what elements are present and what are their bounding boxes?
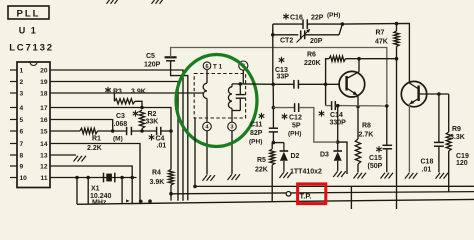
T1 secondary bottom link — [232, 110, 240, 112]
node T1 cap top — [239, 82, 243, 86]
resistor R8 — [357, 107, 359, 140]
pin 10 stub — [10, 177, 17, 179]
svg-text:7: 7 — [20, 141, 24, 148]
T1 internal capacitor — [239, 84, 241, 95]
ground D3 — [333, 171, 338, 177]
node top bus left — [193, 185, 197, 189]
node X1 right — [120, 176, 124, 180]
svg-text:R1: R1 — [92, 136, 101, 143]
node Q1 collector rail — [357, 57, 361, 61]
node X1 left outer — [75, 176, 79, 180]
transistor Q2 — [401, 81, 426, 106]
svg-text:22P: 22P — [311, 15, 324, 22]
node top rail junction — [341, 22, 345, 26]
ground R8 — [354, 173, 359, 179]
svg-text:120P: 120P — [144, 62, 161, 69]
svg-text:3: 3 — [20, 91, 24, 98]
pin 9 stub — [10, 165, 17, 167]
wire pin20 — [50, 70, 183, 201]
pin 6 stub — [10, 130, 17, 132]
svg-text:U 1: U 1 — [19, 26, 38, 36]
svg-text:R7: R7 — [376, 30, 385, 37]
svg-text:R5: R5 — [257, 157, 266, 164]
node R7 top — [395, 22, 399, 26]
wire R7 node down to bottom edge — [396, 59, 398, 209]
svg-text:5P: 5P — [292, 123, 301, 130]
svg-text:11: 11 — [41, 175, 48, 182]
node bus x150 — [148, 199, 152, 203]
node R4 bottom — [169, 192, 173, 196]
svg-text:(M): (M) — [113, 136, 123, 143]
capacitor C16 branch — [273, 23, 303, 25]
pin 3 stub — [10, 92, 17, 94]
svg-text:3.3K: 3.3K — [450, 134, 465, 141]
svg-text:8: 8 — [20, 153, 24, 160]
IC U1 body — [17, 62, 50, 188]
T1 pin 4 — [203, 122, 212, 131]
svg-text:C12: C12 — [289, 115, 302, 122]
svg-text:12: 12 — [40, 164, 48, 171]
transformer T1 shield box — [194, 74, 245, 119]
PLL block label box — [8, 6, 49, 19]
node C4/pin17 junction — [169, 129, 173, 133]
T1 pin 6 — [203, 62, 211, 70]
svg-text:T.P.: T.P. — [300, 191, 312, 200]
node C13/R6 junction — [324, 83, 328, 87]
capacitor C12 — [294, 103, 296, 112]
svg-text:C4: C4 — [156, 135, 165, 142]
svg-text:(50P: (50P — [368, 163, 383, 170]
svg-text:C5: C5 — [146, 53, 155, 60]
trimmer arrow CT2 — [297, 31, 309, 43]
wire secondary row to C13 junction — [243, 83, 273, 85]
svg-text:C11: C11 — [250, 122, 263, 129]
wire D3 node drop to ground — [338, 142, 347, 174]
svg-text:17: 17 — [40, 105, 48, 112]
wire pin14 — [50, 144, 140, 202]
diode D2 — [283, 143, 285, 151]
node C12 row junction — [272, 106, 276, 110]
resistor R5 — [271, 143, 273, 149]
svg-text:R8: R8 — [362, 123, 371, 130]
svg-text:20: 20 — [40, 68, 48, 75]
svg-text:MHz: MHz — [92, 200, 107, 207]
pin 4 stub — [10, 107, 17, 109]
svg-text:LC7132: LC7132 — [9, 43, 54, 54]
wire pin17 — [50, 108, 171, 132]
svg-text:2.7K: 2.7K — [359, 131, 374, 138]
svg-text:C18: C18 — [421, 159, 434, 166]
wire Q1 emitter down — [357, 95, 359, 106]
svg-text:.01: .01 — [422, 167, 432, 174]
svg-text:2.2K: 2.2K — [87, 145, 102, 152]
svg-text:2: 2 — [20, 79, 24, 86]
ground T1 pin3 — [228, 174, 233, 180]
svg-text:X1: X1 — [91, 186, 100, 193]
svg-text:5: 5 — [20, 117, 24, 124]
svg-text:120: 120 — [456, 160, 468, 167]
wire C5 bottom — [171, 61, 188, 201]
test point bus — [171, 192, 474, 194]
ground top-2 — [152, 0, 157, 4]
svg-text:4: 4 — [20, 105, 24, 112]
green highlight ellipse around T1 — [176, 55, 257, 147]
svg-text:47K: 47K — [375, 38, 388, 45]
svg-text:20P: 20P — [310, 38, 323, 45]
svg-text:3.9K: 3.9K — [131, 89, 146, 96]
T1 pin3 ground lead — [231, 131, 233, 174]
ground pin13 — [74, 156, 79, 162]
bottom bus — [77, 199, 474, 204]
node pin12 junction — [130, 176, 134, 180]
red highlight box around T.P. — [298, 184, 326, 204]
wire X1 drop 3 — [121, 178, 123, 204]
crystal X1 — [103, 173, 105, 183]
wire drop x351 to bottom — [350, 186, 352, 209]
wire pin12 drop — [131, 178, 133, 204]
svg-text:.01: .01 — [157, 143, 167, 150]
wire pin11 row — [50, 177, 137, 179]
wire C13 row — [273, 83, 294, 85]
svg-text:R9: R9 — [452, 126, 461, 133]
svg-text:D3: D3 — [320, 152, 329, 159]
node bus pin14 — [139, 200, 143, 204]
wire C14 row — [325, 84, 327, 105]
top bus y186 — [195, 185, 474, 187]
pin 5 stub — [10, 119, 17, 121]
svg-text:C3: C3 — [116, 113, 125, 120]
capacitor C18 — [438, 94, 440, 142]
svg-text:C14: C14 — [330, 112, 343, 119]
wire pin13 to ground — [50, 154, 76, 156]
ground C15 — [381, 173, 386, 179]
svg-text:C16: C16 — [290, 15, 303, 22]
svg-text:18: 18 — [40, 91, 48, 98]
svg-text:(PH): (PH) — [288, 131, 301, 138]
wire C12 row — [273, 107, 294, 109]
T1 pin 2 — [239, 61, 248, 70]
svg-text:13: 13 — [40, 153, 48, 160]
svg-text:9: 9 — [20, 164, 24, 171]
svg-text:10: 10 — [20, 175, 28, 182]
node pin16/R1 junction — [111, 129, 115, 133]
svg-text:15: 15 — [40, 129, 48, 136]
wire pin15 row — [50, 130, 80, 132]
capacitor C3 — [126, 127, 128, 135]
ground Q2 emitter — [405, 173, 410, 179]
wire C5 top rail to R8 node — [171, 48, 387, 104]
arrow mark near bus — [126, 199, 129, 202]
transistor Q1 — [339, 71, 365, 97]
node R7 bottom — [395, 57, 399, 61]
wire X1 drop 1 — [76, 178, 78, 205]
svg-text:.068: .068 — [114, 121, 128, 128]
resistor R9 — [448, 94, 450, 132]
svg-text:220K: 220K — [304, 60, 321, 67]
svg-text:1: 1 — [20, 68, 24, 75]
wire left branch vertical x273 — [272, 29, 274, 84]
test point terminal — [286, 192, 291, 197]
svg-text:16: 16 — [40, 117, 48, 124]
T1 pin4 ground lead — [206, 131, 208, 175]
resistor R2 — [133, 110, 139, 116]
svg-text:C19: C19 — [456, 153, 469, 160]
wire pin19 — [50, 82, 178, 201]
node Q2 base / C18 — [437, 92, 441, 96]
svg-text:6: 6 — [20, 129, 24, 136]
capacitor C15 below rail node — [386, 106, 388, 145]
resistor R1 — [80, 128, 98, 134]
svg-text:(PH): (PH) — [249, 138, 262, 145]
rail R6 to R7 bottom — [359, 58, 397, 60]
node X1 left — [86, 176, 90, 180]
svg-text:D2: D2 — [291, 153, 300, 160]
node C14/D3 — [336, 104, 340, 108]
svg-text:PLL: PLL — [17, 9, 41, 20]
wire C16 CT2 left junction — [272, 24, 274, 35]
capacitor C13 — [293, 80, 295, 89]
wire pin12 — [50, 166, 132, 178]
resistor R3 with jog from pin18 line — [105, 87, 111, 93]
node C11 bottom junction — [272, 141, 276, 145]
T1 primary winding — [206, 70, 208, 84]
wire Q1 collector up — [358, 59, 360, 72]
svg-text:19: 19 — [40, 79, 48, 86]
capacitor C14 — [331, 101, 333, 110]
node C13 row left junction — [271, 83, 275, 87]
svg-text:CT2: CT2 — [280, 38, 293, 45]
wire X1 drop 2 — [87, 178, 89, 205]
ground C18 — [436, 173, 441, 179]
svg-text:R4: R4 — [152, 170, 161, 177]
svg-text:R2: R2 — [148, 111, 157, 118]
wire top rail to Q2 collector — [342, 23, 409, 83]
wire pin18 — [50, 92, 203, 94]
wire T1 box to top bus — [194, 118, 196, 186]
T1 pin 3 — [228, 122, 237, 131]
wire pin16 — [50, 120, 113, 132]
resistor R4 — [170, 131, 172, 170]
wire to D2 top — [273, 142, 284, 144]
wire Q2 emitter to ground — [408, 104, 410, 173]
svg-text:22K: 22K — [255, 166, 268, 173]
T1 secondary winding — [231, 84, 233, 87]
svg-text:33P: 33P — [277, 74, 290, 81]
svg-text:T 1: T 1 — [213, 63, 223, 70]
capacitor C11 — [269, 127, 278, 129]
node R2 bottom junction — [140, 129, 144, 133]
diode D3 — [337, 107, 339, 142]
svg-text:R6: R6 — [307, 52, 316, 59]
svg-text:82P: 82P — [250, 130, 263, 137]
ground T1 pin4 — [203, 175, 208, 181]
trimmer CT2 branch — [273, 34, 299, 36]
node C14 row right end — [385, 104, 389, 108]
svg-text:14: 14 — [40, 141, 48, 148]
node R3/pin17 junction — [140, 106, 144, 110]
pin 1 stub — [10, 69, 17, 71]
pin 2 stub — [10, 81, 17, 83]
svg-text:3.9K: 3.9K — [150, 179, 165, 186]
svg-text:C15: C15 — [369, 155, 382, 162]
svg-text:33K: 33K — [146, 119, 159, 126]
svg-text:1TT410x2: 1TT410x2 — [290, 169, 322, 176]
T1 top link wire — [232, 83, 243, 85]
ground D2 — [279, 172, 284, 178]
wire R5 to bottom bus — [271, 165, 273, 202]
pin 7 stub — [10, 143, 17, 145]
pin 8 stub — [10, 154, 17, 156]
wire Q2 base lead — [419, 93, 449, 95]
node Q1 emitter / C14 row — [356, 105, 360, 109]
capacitor C4 — [156, 127, 158, 135]
ground top-1 — [107, 0, 112, 4]
svg-text:(PH): (PH) — [327, 12, 340, 19]
svg-text:330P: 330P — [330, 119, 347, 126]
